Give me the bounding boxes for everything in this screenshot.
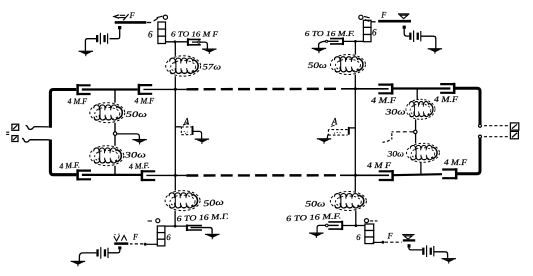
contact stud under fuse bar (bottom-right) xyxy=(408,244,411,247)
svg-text:6 TO 16 M.F.: 6 TO 16 M.F. xyxy=(305,29,355,38)
battery B2 (top-right) xyxy=(409,30,421,42)
resistor 6 (top-right cell chain) xyxy=(363,20,371,41)
wire (left shunt between L1 and node) xyxy=(114,123,116,132)
wire (top-right branch horizontal) xyxy=(343,40,363,42)
wire (right shunt tap from top line) xyxy=(416,89,418,100)
svg-text:6: 6 xyxy=(356,232,361,242)
wire (bottom line between C7 and C8) xyxy=(393,174,442,175)
ground (top-left capacitor) xyxy=(202,49,216,54)
ground (top-right capacitor) xyxy=(312,48,326,53)
wire (right shunt L4 to bottom line) xyxy=(420,162,422,174)
wire (bottom line between C5 and C6) xyxy=(82,174,141,176)
wire (dashed earth leader from right shunt midpoint) xyxy=(392,131,414,133)
capacitor C7 4MF (bottom line, inner right) xyxy=(379,170,393,181)
node (left shunt midpoint) xyxy=(113,132,116,135)
resistor 6 (bottom-left cell chain) xyxy=(157,226,165,246)
node (right shunt midpoint) xyxy=(414,130,417,133)
contact stud under fuse bar (right) xyxy=(403,26,406,29)
retardation coil L3 30w (right shunt upper) xyxy=(406,99,435,119)
fuse F (top-right) xyxy=(378,14,411,21)
battery B4 (bottom-right) xyxy=(422,245,434,257)
ground (top-left battery) xyxy=(79,51,93,56)
node (right loop lower tip) xyxy=(479,135,482,138)
node (right loop upper tip) xyxy=(479,124,482,127)
wire (dashed leads to right terminal) xyxy=(484,125,509,127)
wire (dashed link dot to fuse bar, bottom-right) xyxy=(385,241,402,243)
retardation coil L6 50w (bottom-left branch) xyxy=(165,191,200,211)
svg-text:30ω: 30ω xyxy=(123,149,145,159)
capacitor C6 4MF (bottom line, inner left) xyxy=(142,170,155,181)
svg-text:50ω: 50ω xyxy=(308,60,327,70)
wire (stud to battery, bottom-right) xyxy=(409,248,422,250)
wire (battery to ground, bottom-left) xyxy=(79,253,96,261)
contact stud above battery lead (bottom-left) xyxy=(118,246,121,249)
ground (left shunt midpoint) xyxy=(132,140,146,145)
node (bottom-right line junction) xyxy=(354,174,357,177)
capacitor C5 4MF (bottom line, outer left) xyxy=(78,169,91,180)
capacitor C3 4MF (top line, inner right) xyxy=(378,83,392,94)
contact stud under fuse bar xyxy=(118,26,121,29)
retardation coil L7 50w (top-right branch) xyxy=(331,55,366,75)
wire (battery to ground, top-left) xyxy=(85,39,96,52)
jack J1 (left line terminal) xyxy=(6,124,19,141)
wire (right shunt node to L4) xyxy=(415,134,417,144)
wire (stud to battery, top-right) xyxy=(404,29,409,36)
node (junction of drop and branch, top-left) xyxy=(174,40,177,43)
resistor 6 (bottom-right cell chain) xyxy=(365,224,374,244)
wire (battery to ground, top-right) xyxy=(421,36,436,49)
wire (bottom line stub from C6 to node) xyxy=(146,174,186,176)
capacitor C9 6-16MF (top-left to ground) xyxy=(188,38,208,49)
wire (left shunt L2 to bottom line) xyxy=(114,166,116,175)
arrester A (right, with dashed carbon block) xyxy=(327,127,355,139)
svg-text:F: F xyxy=(129,11,135,20)
wire (top line between C3 and C4) xyxy=(392,87,450,89)
wire (bottom-left branch horizontal) xyxy=(160,225,187,227)
wire (left drop vertical through both lines) xyxy=(174,76,176,190)
retardation coil L8 50w (bottom-right branch) xyxy=(330,192,366,211)
wire (top line stub from C2 to node) xyxy=(143,88,186,90)
svg-text:50ω: 50ω xyxy=(203,196,224,208)
wire (right drop vertical through both lines) xyxy=(354,75,356,192)
fuse F (bottom-left) xyxy=(114,234,129,244)
wire (left shunt tap from top line) xyxy=(114,90,116,103)
wire (right loop lower vertical + bottom-right corner) xyxy=(457,138,480,174)
node (junction of drop and branch, top-right) xyxy=(354,40,357,43)
capacitor C10 6-16MF (top-right to ground) xyxy=(319,37,343,48)
ground (bottom-left battery) xyxy=(71,261,85,266)
svg-text:4 M.F: 4 M.F xyxy=(434,95,458,104)
svg-text:57ω: 57ω xyxy=(203,61,222,71)
wire (right shunt between L3 and node) xyxy=(415,119,417,130)
svg-text:6: 6 xyxy=(166,232,171,242)
wire (top line right solid thin through node) xyxy=(341,88,389,90)
capacitor C11 6-16MF (bottom-left to ground) xyxy=(187,225,212,234)
wire (chain bottom to dot, bottom-right) xyxy=(373,241,382,243)
wire (top-right corner + right loop upper vertical) xyxy=(454,88,480,124)
wire (left loop lower: vertical + bottom-left corner) xyxy=(50,140,76,175)
svg-text:F: F xyxy=(387,231,393,240)
wire (bottom line right solid thin through node) xyxy=(340,174,389,176)
contact (top of chain) xyxy=(163,15,167,19)
wire (left drop: top branch node down to coil) xyxy=(174,42,176,56)
node (top-right line junction) xyxy=(354,87,357,90)
capacitor C12 6-16MF (bottom-right to ground) xyxy=(317,221,342,233)
wire (left drop coil to bottom junction) xyxy=(174,211,176,226)
wire (stud to battery, bottom-left) xyxy=(108,249,120,252)
ground (top-right battery) xyxy=(428,49,442,54)
wire (top line between C1 and C2) xyxy=(82,88,138,90)
svg-text:F: F xyxy=(380,10,386,19)
svg-text:6: 6 xyxy=(372,27,377,37)
node (junction of drop and branch, bottom-left) xyxy=(174,225,177,228)
wire (right drop coil to bottom junction) xyxy=(355,211,357,226)
retardation coil L2 30w (left shunt lower) xyxy=(90,146,124,166)
capacitor C4 4MF (top line, outer right) xyxy=(440,83,454,94)
svg-text:4 M.F: 4 M.F xyxy=(68,97,88,106)
node (junction of drop and branch, bottom-right) xyxy=(355,224,358,227)
node (top line / left drop junction) xyxy=(174,88,177,91)
ground (left arrester) xyxy=(195,139,209,144)
contact (top of chain, right) xyxy=(359,15,363,19)
retardation coil L1 50w (left shunt upper) xyxy=(90,103,125,123)
wire (chain bottom hook to dot) xyxy=(147,243,157,245)
capacitor C1 4MF (top line, outer left) xyxy=(78,84,91,95)
svg-text:50ω: 50ω xyxy=(126,109,147,119)
ground (bottom-left capacitor) xyxy=(205,234,219,239)
resistor 6 (top-left cell chain) xyxy=(158,22,166,44)
svg-text:A: A xyxy=(331,116,338,126)
svg-text:4 M.F: 4 M.F xyxy=(444,158,467,167)
retardation coil L4 30w (right shunt lower) xyxy=(407,143,440,162)
battery B3 (bottom-left) xyxy=(96,247,108,259)
wire (left shunt midpoint to ground) xyxy=(117,134,139,140)
ground (bottom-right capacitor) xyxy=(309,233,323,238)
contact (above bottom-left chain) xyxy=(148,220,152,222)
wire (bottom line long-distance dashed section) xyxy=(186,174,340,177)
svg-text:30ω: 30ω xyxy=(384,106,405,116)
retardation coil L5 57w (top-left branch) xyxy=(166,56,201,76)
wire (top-left branch horizontal) xyxy=(161,41,188,43)
fuse F (top-left) xyxy=(114,14,158,22)
wire (left loop upper: vertical + top-left corner) xyxy=(50,90,76,128)
contact (above bottom-right chain) xyxy=(365,219,369,223)
wire (left shunt node to L2) xyxy=(114,135,116,146)
wire (top line long-distance dashed section) xyxy=(186,88,341,91)
ground (bottom-right battery) xyxy=(442,259,456,264)
arrester A (left, with dashed carbon block) xyxy=(175,126,201,139)
wire (bottom-right branch horizontal) xyxy=(342,225,365,227)
svg-text:4 M.F.: 4 M.F. xyxy=(59,160,80,170)
wire (stud to battery, top-left) xyxy=(110,29,120,38)
wire (battery to ground, bottom-right) xyxy=(434,252,448,258)
fuse F (bottom-right) xyxy=(402,235,415,241)
ground (right arrester) xyxy=(317,139,331,144)
battery B1 (top-left) xyxy=(96,33,108,45)
svg-text:4 M.F: 4 M.F xyxy=(135,97,155,106)
svg-text:F: F xyxy=(132,233,138,242)
svg-text:4 M F: 4 M F xyxy=(367,161,391,170)
wire (dashed link dot to fuse bar) xyxy=(130,243,143,245)
svg-text:6: 6 xyxy=(148,30,153,40)
svg-text:50ω: 50ω xyxy=(305,198,325,208)
wire (right drop: top branch node down to coil) xyxy=(354,42,356,55)
capacitor C2 4MF (top line, inner left) xyxy=(139,84,152,95)
svg-text:6 TO 16 M F: 6 TO 16 M F xyxy=(171,30,218,39)
jack J2 (right line terminal) xyxy=(510,123,518,139)
wire (bottom lead from jack, wavy) xyxy=(22,138,49,142)
node (bottom line / left drop junction) xyxy=(174,174,177,177)
wire (top lead from jack, wavy) xyxy=(26,125,49,129)
svg-text:30ω: 30ω xyxy=(386,148,404,158)
capacitor C8 4MF (bottom line, outer right) xyxy=(442,168,456,179)
svg-text:4 M.F: 4 M.F xyxy=(371,96,396,105)
svg-text:4 M.F.: 4 M.F. xyxy=(129,161,150,171)
